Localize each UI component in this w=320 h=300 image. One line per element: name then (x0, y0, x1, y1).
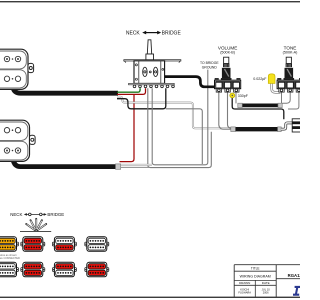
svg-text:BRIDGE: BRIDGE (47, 212, 64, 217)
svg-text:WIRING DIAGRAM: WIRING DIAGRAM (240, 274, 271, 278)
svg-text:TO BRIDGE: TO BRIDGE (200, 61, 219, 65)
svg-text:BRIDGE: BRIDGE (162, 30, 182, 36)
svg-text:RGA121: RGA121 (288, 273, 300, 278)
svg-text:DRAWN: DRAWN (239, 281, 250, 285)
svg-text:(500K-A): (500K-A) (283, 50, 298, 54)
svg-text:FUJIHARA: FUJIHARA (238, 291, 251, 295)
svg-text:DATE: DATE (262, 281, 270, 285)
svg-text:GROUND: GROUND (202, 66, 218, 70)
svg-text:(500K-B): (500K-B) (220, 50, 235, 54)
svg-text:330pF: 330pF (238, 94, 249, 98)
svg-text:TITLE: TITLE (251, 266, 260, 270)
svg-text:NECK: NECK (126, 30, 141, 36)
svg-text:0.022µF: 0.022µF (253, 77, 267, 81)
svg-text:NECK: NECK (10, 212, 22, 217)
svg-text:are CONNECTED: are CONNECTED (0, 256, 20, 260)
svg-text:2006: 2006 (263, 291, 269, 295)
